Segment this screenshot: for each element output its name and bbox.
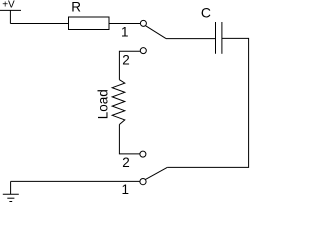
load throw contact (2, top) (140, 48, 146, 54)
wire load resistor to bottom throw contact (119, 125, 139, 154)
svg-text:2: 2 (122, 53, 130, 68)
power terminal +V (0, 10, 21, 23)
resistor Load (zigzag) (112, 80, 125, 125)
load throw contact (2, bottom) (140, 151, 146, 157)
switch S1 arm (blade to capacitor side) (146, 26, 166, 39)
svg-text:C: C (201, 4, 211, 20)
resistor R (69, 17, 110, 30)
svg-text:R: R (71, 0, 81, 14)
switch S1 pole contact (140, 20, 146, 26)
wire capacitor C down right side to switch S2 arm (167, 38, 248, 167)
switch S2 arm (blade) (146, 167, 168, 179)
wire ground to switch S2 pole (11, 180, 140, 182)
svg-text:1: 1 (121, 25, 129, 40)
wire +V rail to resistor R (10, 23, 68, 25)
svg-text:+V: +V (2, 0, 15, 10)
svg-text:2: 2 (122, 155, 130, 170)
switch S2 pole contact (140, 179, 146, 185)
ground (3, 181, 19, 201)
capacitor C (216, 22, 222, 54)
wire S1 arm to capacitor C (166, 38, 216, 40)
wire top throw contact to load resistor (119, 51, 140, 79)
wire resistor R to switch S1 pole (109, 23, 140, 25)
svg-text:Load: Load (95, 89, 110, 119)
svg-text:1: 1 (122, 182, 130, 197)
